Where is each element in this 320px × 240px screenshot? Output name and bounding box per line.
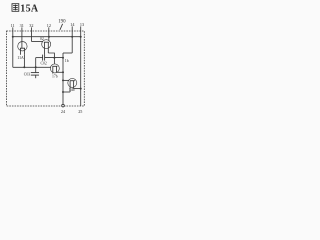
svg-text:1b: 1b <box>65 59 69 63</box>
svg-text:11A: 11A <box>17 56 24 60</box>
wire T4 left leg elbow to main vertical <box>63 91 70 93</box>
terminal 14 stub wire <box>71 26 73 36</box>
transistor 17b (T3) <box>50 64 59 74</box>
svg-text:190: 190 <box>58 19 66 24</box>
terminal 11 stub wire <box>12 27 14 36</box>
junction dot T4 right leg on right vertical <box>80 88 82 90</box>
wire down from C02 left stub to capacitor C03 <box>35 58 37 73</box>
transistor 11A (T1) <box>18 42 27 55</box>
junction dot T4 base on main vertical <box>62 79 64 81</box>
junction dot on T3 collector stem <box>53 57 55 59</box>
svg-text:13: 13 <box>80 22 84 27</box>
wire: terminal 32 elbow to T2 base <box>32 41 44 43</box>
junction dot at terminal 11 / bus <box>12 36 14 38</box>
wire: elbow to main vertical <box>63 52 72 54</box>
wire: terminal 14 down <box>71 37 73 53</box>
svg-text:32: 32 <box>29 23 33 28</box>
wire T2 left leg to capacitor C02 right plate <box>44 53 46 55</box>
junction dot C03 node on y=67.3 wire <box>35 66 37 68</box>
junction dot at terminal 13 / bus <box>80 36 82 38</box>
junction dot at terminal 12 / bus <box>48 36 50 38</box>
transistor 14b (T4) <box>68 78 77 92</box>
svg-text:25: 25 <box>78 109 82 114</box>
transistor T1 emitter wire down to node <box>23 55 25 68</box>
wire T2 right leg elbow to T3 collector <box>48 53 54 64</box>
svg-text:12: 12 <box>47 23 51 28</box>
wire: terminal 13 down right side <box>80 37 82 106</box>
wire T4 right leg elbow to right vertical <box>74 88 81 90</box>
wire capacitor C02 right stub to main vertical <box>45 57 63 59</box>
wire: horizontal run y=67.3 to T3 base <box>13 66 51 68</box>
svg-text:11: 11 <box>11 23 15 28</box>
terminal 31 stub wire (continues to T1 base) <box>21 27 23 48</box>
horizontal bus wire <box>13 36 81 38</box>
figure title glyph 圖 <box>12 4 19 12</box>
leader line for 190 <box>60 24 63 30</box>
wire C03 bottom stub <box>35 75 37 78</box>
wire capacitor C02 left stub <box>36 57 43 59</box>
capacitor C03 (shunt, horizontal plates) <box>31 73 39 76</box>
wire: terminal 11 line down left side <box>12 37 14 68</box>
wire T4 base from main vertical <box>63 79 69 81</box>
svg-text:15A: 15A <box>20 3 39 14</box>
capacitor C02 (series, vertical plates) <box>43 55 45 61</box>
junction dot T4 left leg on main vertical <box>62 91 64 93</box>
open terminal circle for pin 24 <box>62 104 65 107</box>
wire T3 emitter elbow to main vertical <box>57 71 64 73</box>
svg-text:17b: 17b <box>52 75 58 79</box>
junction dot T3 emitter on main vertical <box>62 71 64 73</box>
svg-text:C03: C03 <box>24 73 30 77</box>
svg-text:C02: C02 <box>41 62 47 66</box>
junction dot at terminal 14 / bus <box>71 36 73 38</box>
junction dot T1 emitter node <box>23 66 25 68</box>
terminal 13 stub wire <box>80 26 82 36</box>
terminal 32 stub wire <box>31 27 33 41</box>
svg-text:14b: 14b <box>69 88 75 92</box>
transistor 02 (T2) <box>42 40 51 53</box>
main vertical wire to terminal 24 <box>62 53 64 104</box>
dashed enclosure box (device 190) <box>7 31 85 106</box>
svg-text:02: 02 <box>40 37 44 41</box>
svg-text:31: 31 <box>20 23 24 28</box>
terminal 12 stub wire (to bus and T2 collector) <box>48 27 50 40</box>
junction dot C02 right stub on main vertical <box>62 57 64 59</box>
